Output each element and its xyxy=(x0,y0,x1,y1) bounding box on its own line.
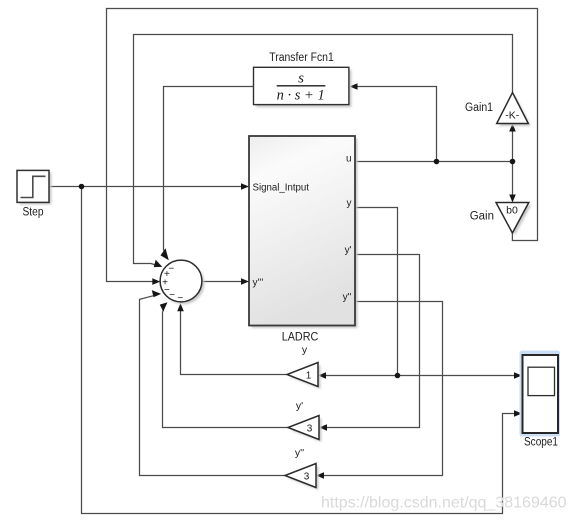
arrowhead into gain y' (3) input xyxy=(319,424,327,431)
svg-text:y': y' xyxy=(296,400,303,412)
junction dot at Step branch xyxy=(79,184,85,190)
wire: u branch up into Gain1 xyxy=(512,131,514,162)
wire: Step branch -> bottom -> right -> up -> Scope1 input 2 xyxy=(82,187,515,514)
arrowhead sum lower-left - input (from gain y'') xyxy=(152,290,161,297)
Transfer Fcn1 block xyxy=(254,67,349,104)
svg-text:-K-: -K- xyxy=(505,110,520,122)
LADRC subsystem shadow xyxy=(252,139,358,329)
Step block shadow xyxy=(20,173,52,205)
arrowhead sum top input (from Transfer Fcn1) xyxy=(161,248,169,260)
gain y'' block (3) xyxy=(285,464,316,488)
arrowhead into gain y (1) input xyxy=(318,372,326,379)
wire: u branch down into Gain b0 xyxy=(512,162,514,196)
arrowhead into Scope1 input 1 xyxy=(514,372,522,379)
svg-text:y: y xyxy=(347,198,352,209)
svg-text:Step: Step xyxy=(23,207,44,219)
svg-text:u: u xyxy=(346,154,352,165)
svg-text:3: 3 xyxy=(307,423,313,434)
gain y'' (3) shadow xyxy=(288,466,319,490)
arrowhead sum bottom - input (from gain y) xyxy=(177,303,184,311)
svg-text:Gain1: Gain1 xyxy=(465,102,493,114)
sum block shadow xyxy=(163,263,205,305)
svg-text:y': y' xyxy=(345,245,352,256)
Scope1 selection halo xyxy=(520,351,561,437)
Gain1 block (-K-) xyxy=(497,93,529,124)
Gain b0 shadow xyxy=(499,205,532,235)
svg-text:Transfer Fcn1: Transfer Fcn1 xyxy=(269,52,334,64)
junction dot on u wire at Gain1/b0 branch xyxy=(510,159,516,165)
Gain b0 block xyxy=(496,203,529,234)
wire: y row junction -> right into Scope1 input 1 xyxy=(398,375,515,377)
arrowhead sum left + input (from b0 loop) xyxy=(152,278,160,285)
svg-text:n · s + 1: n · s + 1 xyxy=(277,88,325,104)
Transfer Fcn1 block shadow xyxy=(256,70,352,107)
svg-text:3: 3 xyxy=(304,471,310,482)
wire: u branch -> up -> left -> Transfer Fcn1 input xyxy=(357,87,437,162)
svg-text:https://blog.csdn.net/qq_38169: https://blog.csdn.net/qq_38169460 xyxy=(321,495,567,512)
wire: LADRC y' output -> right -> down -> left into gain y' (3) xyxy=(327,255,420,428)
arrowhead into Transfer Fcn1 input xyxy=(350,83,358,90)
wire: gain y'' (3) output -> left -> up -> diagonal -> sum - input xyxy=(140,296,286,476)
Gain1 shadow xyxy=(499,95,531,126)
svg-text:−: − xyxy=(177,293,183,304)
arrowhead into Gain1 input xyxy=(509,124,516,132)
wire: gain y (1) output -> left -> up -> sum - bottom input xyxy=(181,311,288,375)
wire: Gain1 output loop (apex -> up -> left -> down -> diagonal -> sum + input) xyxy=(134,35,513,265)
Scope1 block xyxy=(523,355,559,433)
arrowhead into LADRC y''' xyxy=(241,278,249,285)
svg-text:LADRC: LADRC xyxy=(282,332,319,344)
wire: gain y' (3) output -> left -> up -> diagonal -> sum - input xyxy=(163,310,289,428)
svg-text:b0: b0 xyxy=(506,205,518,217)
gain y' (3) shadow xyxy=(291,418,322,442)
wire: y row junction -> left into gain y (1) xyxy=(326,375,398,377)
arrowhead sum upper-left + input (from Gain1) xyxy=(154,260,163,267)
Step block xyxy=(17,170,49,202)
svg-text:y'': y'' xyxy=(295,447,304,459)
gain y block (1) xyxy=(287,363,318,387)
wire: LADRC y output -> right -> down to junction row xyxy=(355,208,398,376)
svg-text:y'': y'' xyxy=(343,292,352,303)
junction dot on y row xyxy=(395,373,401,379)
arrowhead into Scope1 input 2 xyxy=(514,410,522,417)
svg-text:−: − xyxy=(169,290,175,301)
svg-text:Signal_Intput: Signal_Intput xyxy=(253,183,310,194)
wire: sum output -> LADRC y''' input xyxy=(202,281,242,283)
svg-text:Gain: Gain xyxy=(470,211,494,223)
svg-text:y''': y''' xyxy=(253,277,264,288)
arrowhead into Gain b0 input xyxy=(509,195,516,203)
svg-text:s: s xyxy=(298,70,304,86)
LADRC subsystem block xyxy=(249,136,355,326)
wire: Step output -> LADRC Signal_Intput xyxy=(49,186,242,188)
wire: LADRC u output horizontal xyxy=(355,161,513,163)
junction dot on u wire at Transfer Fcn branch xyxy=(434,159,440,165)
arrowhead into LADRC Signal_Intput xyxy=(241,183,249,190)
svg-text:y: y xyxy=(302,344,308,356)
arrowhead into gain y'' (3) input xyxy=(316,472,324,479)
gain y (1) shadow xyxy=(290,365,321,389)
svg-text:Scope1: Scope1 xyxy=(524,436,558,448)
arrowhead sum bottom-left - input (from gain y') xyxy=(160,302,168,311)
svg-text:1: 1 xyxy=(306,370,312,381)
wire: b0 output feedback loop (b0 apex -> down -> right -> top -> left -> down -> sum + input) xyxy=(107,9,538,282)
wire: Transfer Fcn1 output -> left -> down -> diagonal -> sum - top input xyxy=(164,87,254,253)
gain y' block (3) xyxy=(288,416,319,440)
sum block xyxy=(160,260,202,304)
wire: LADRC y'' output -> right -> down -> left into gain y'' (3) xyxy=(324,302,443,476)
